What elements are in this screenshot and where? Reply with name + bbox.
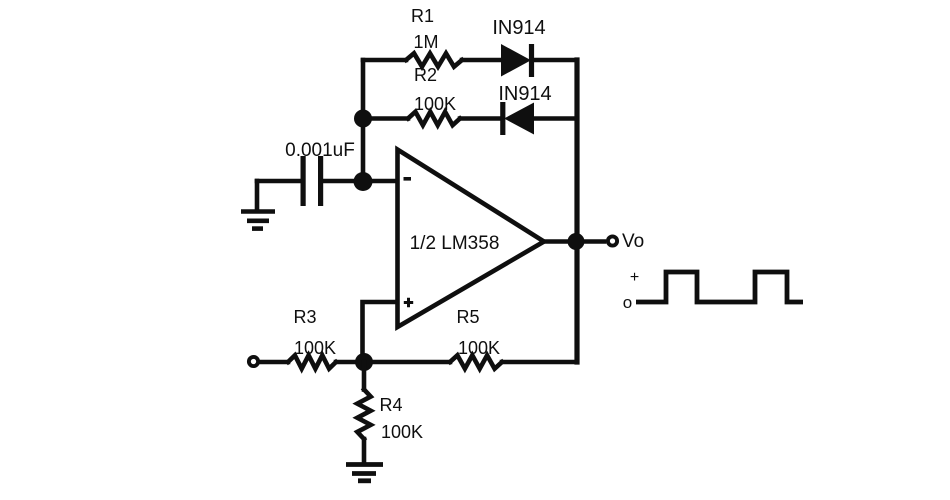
svg-text:IN914: IN914	[498, 83, 551, 105]
svg-text:0.001uF: 0.001uF	[285, 140, 355, 161]
svg-text:o: o	[623, 293, 632, 312]
svg-text:100K: 100K	[414, 94, 456, 114]
svg-text:R5: R5	[456, 307, 479, 327]
svg-text:100K: 100K	[294, 338, 336, 358]
svg-text:R2: R2	[414, 65, 437, 85]
svg-text:IN914: IN914	[492, 17, 545, 39]
svg-text:1/2 LM358: 1/2 LM358	[410, 233, 500, 254]
svg-text:+: +	[630, 269, 639, 286]
svg-text:1M: 1M	[413, 32, 438, 52]
svg-text:R1: R1	[411, 6, 434, 26]
svg-text:Vo: Vo	[622, 231, 644, 252]
svg-text:R4: R4	[379, 395, 402, 415]
svg-text:100K: 100K	[458, 338, 500, 358]
svg-text:100K: 100K	[381, 422, 423, 442]
svg-text:R3: R3	[293, 307, 316, 327]
